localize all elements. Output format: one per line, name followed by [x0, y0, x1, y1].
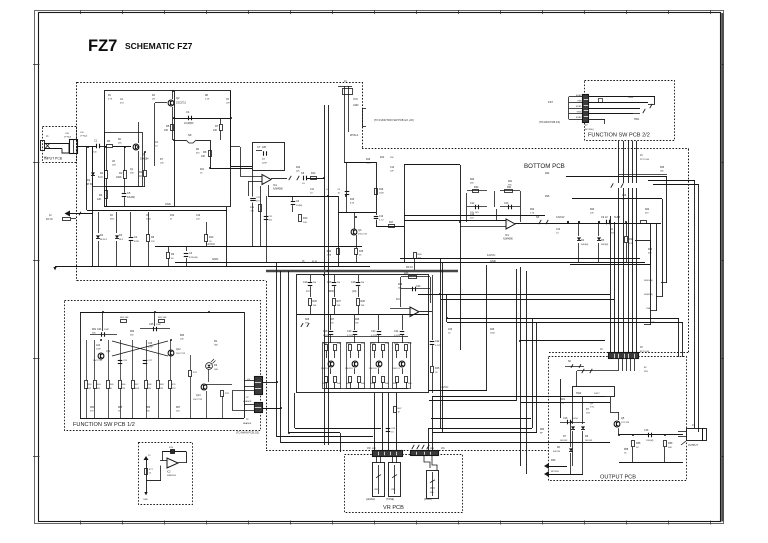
svg-text:(HI): (HI): [352, 289, 356, 293]
svg-text:R12: R12: [311, 172, 316, 175]
svg-text:GND: GND: [577, 112, 582, 114]
svg-text:4.7K: 4.7K: [108, 98, 113, 100]
svg-text:R6: R6: [203, 150, 207, 154]
svg-text:LED: LED: [214, 369, 219, 371]
svg-text:SUB1: SUB1: [576, 106, 582, 108]
svg-text:FZ7: FZ7: [88, 37, 117, 55]
svg-text:12VCC: 12VCC: [440, 385, 448, 389]
svg-text:R21: R21: [507, 186, 512, 189]
svg-text:10U: 10U: [196, 218, 200, 220]
svg-text:R46: R46: [490, 329, 495, 331]
svg-text:(TONE): (TONE): [386, 498, 394, 501]
svg-text:IC2: IC2: [396, 298, 400, 301]
svg-text:51 K: 51 K: [98, 176, 103, 179]
svg-text:IC1: IC1: [505, 234, 510, 237]
svg-text:1M: 1M: [152, 98, 155, 100]
svg-text:0.1UV: 0.1UV: [323, 335, 330, 337]
svg-text:HEADER: HEADER: [243, 400, 252, 403]
svg-text:C9 1U: C9 1U: [601, 216, 608, 219]
svg-text:56K(M): 56K(M): [581, 244, 588, 246]
svg-text:R64: R64: [90, 407, 95, 409]
svg-text:R45: R45: [435, 367, 440, 370]
svg-text:1P RLA.: 1P RLA.: [80, 135, 88, 138]
svg-text:+: +: [168, 464, 170, 468]
svg-text:R60: R60: [540, 429, 545, 431]
svg-text:10K: 10K: [303, 222, 307, 224]
svg-text:R21: R21: [508, 181, 513, 183]
svg-text:BP7605: BP7605: [551, 471, 560, 473]
svg-text:10K: 10K: [160, 162, 164, 164]
svg-text:R20: R20: [474, 186, 479, 189]
svg-text:2M: 2M: [361, 282, 364, 284]
svg-text:56K: 56K: [398, 287, 402, 289]
svg-text:C21: C21: [394, 330, 399, 333]
svg-text:22K: 22K: [296, 170, 300, 172]
svg-text:+: +: [411, 313, 413, 317]
svg-text:R2: R2: [119, 171, 123, 175]
svg-text:1U/50: 1U/50: [572, 418, 579, 420]
svg-text:C4: C4: [186, 110, 190, 114]
svg-text:C15: C15: [563, 417, 568, 420]
svg-text:D1: D1: [87, 178, 91, 182]
svg-text:R63: R63: [180, 335, 185, 337]
svg-text:56K: 56K: [118, 142, 122, 144]
svg-text:R61: R61: [92, 329, 97, 331]
svg-text:10K: 10K: [180, 338, 184, 340]
svg-text:INPUT PCB: INPUT PCB: [44, 157, 63, 161]
svg-text:R4: R4: [99, 193, 103, 197]
svg-text:47U: 47U: [256, 200, 260, 202]
svg-text:2.2K: 2.2K: [205, 98, 210, 100]
svg-text:RP-10: RP-10: [406, 266, 413, 269]
svg-text:R22: R22: [629, 238, 634, 241]
svg-text:1U(M): 1U(M): [296, 205, 302, 207]
svg-text:8P PLUG: 8P PLUG: [640, 351, 649, 353]
svg-text:R58: R58: [636, 442, 641, 445]
svg-text:R65: R65: [118, 407, 123, 409]
svg-text:0.1UV: 0.1UV: [394, 335, 401, 337]
svg-text:SW1: SW1: [628, 96, 634, 99]
svg-text:SF: SF: [536, 215, 540, 219]
svg-text:10U(M): 10U(M): [646, 440, 654, 442]
svg-text:BP IN: BP IN: [86, 183, 92, 186]
svg-text:VR3: VR3: [430, 487, 435, 490]
svg-text:2SC2712: 2SC2712: [176, 353, 186, 355]
svg-text:G: G: [326, 189, 328, 191]
svg-text:15K: 15K: [390, 157, 394, 159]
svg-text:WA: WA: [430, 491, 434, 494]
svg-text:8P IN: 8P IN: [312, 261, 318, 263]
svg-text:100K: 100K: [490, 332, 495, 334]
svg-text:2SC2712: 2SC2712: [358, 234, 368, 236]
svg-text:FUNCTION SW PCB 1/2: FUNCTION SW PCB 1/2: [73, 422, 135, 428]
svg-text:R15: R15: [359, 251, 364, 253]
svg-text:R25: R25: [660, 167, 665, 169]
svg-text:100P: 100P: [96, 348, 101, 350]
svg-text:SF: SF: [188, 133, 192, 137]
svg-text:100P: 100P: [104, 329, 110, 331]
svg-text:R14: R14: [380, 157, 385, 159]
svg-text:VSB: VSB: [577, 100, 582, 102]
svg-text:R62: R62: [130, 331, 135, 333]
svg-text:-: -: [263, 175, 264, 179]
svg-text:C12: C12: [390, 167, 395, 169]
svg-text:DC IN: DC IN: [46, 218, 53, 221]
svg-text:12V01V: 12V01V: [556, 216, 565, 219]
svg-text:R27: R27: [337, 300, 342, 303]
svg-text:C12: C12: [470, 202, 475, 205]
svg-text:R59: R59: [668, 442, 673, 445]
svg-text:2M: 2M: [313, 282, 316, 284]
svg-text:C24: C24: [96, 345, 101, 347]
svg-text:NJM2904: NJM2904: [167, 475, 177, 477]
svg-text:+: +: [263, 181, 265, 185]
svg-text:GND: GND: [490, 259, 496, 263]
svg-text:RLZ6.2: RLZ6.2: [100, 239, 108, 241]
svg-text:10K: 10K: [201, 155, 206, 158]
svg-text:R61 56K: R61 56K: [120, 317, 129, 319]
svg-text:47K: 47K: [90, 410, 94, 412]
svg-text:2P RLA: 2P RLA: [64, 136, 72, 139]
svg-text:C20: C20: [371, 330, 376, 333]
svg-text:C25: C25: [149, 323, 154, 326]
svg-text:R60: R60: [551, 459, 556, 462]
svg-text:NJM4580: NJM4580: [503, 239, 514, 241]
svg-text:R20: R20: [470, 179, 475, 181]
svg-text:DTC124: DTC124: [621, 422, 630, 424]
svg-text:R22: R22: [530, 209, 535, 211]
svg-text:R16: R16: [366, 159, 371, 161]
svg-text:C14: C14: [303, 281, 308, 284]
svg-text:56K: 56K: [146, 410, 150, 412]
svg-text:C10: C10: [379, 216, 384, 218]
svg-text:(FUZZ): (FUZZ): [424, 498, 432, 501]
svg-text:R16: R16: [379, 189, 384, 191]
svg-text:1U(M)50: 1U(M)50: [184, 122, 194, 125]
svg-text:-: -: [411, 307, 412, 311]
svg-text:2P PLUG: 2P PLUG: [640, 159, 649, 161]
svg-text:150K: 150K: [379, 192, 384, 194]
svg-text:VSB: VSB: [646, 308, 651, 310]
svg-text:2M: 2M: [337, 282, 340, 284]
svg-text:SUB2(B): SUB2(B): [644, 294, 653, 296]
svg-text:56K: 56K: [470, 182, 474, 184]
svg-text:-: -: [168, 458, 169, 462]
svg-text:C14: C14: [556, 229, 561, 231]
svg-text:DTC: DTC: [590, 406, 595, 408]
svg-text:C13: C13: [470, 214, 475, 216]
svg-text:HEADER: HEADER: [243, 422, 252, 425]
svg-text:100K: 100K: [116, 176, 122, 179]
svg-text:PIN: PIN: [644, 371, 648, 373]
svg-text:100U: 100U: [146, 218, 151, 220]
svg-text:R30: R30: [648, 249, 653, 251]
svg-text:ISS133: ISS133: [553, 451, 561, 453]
svg-text:C16: C16: [622, 195, 627, 197]
svg-text:C22: C22: [435, 340, 440, 343]
svg-text:56K(M): 56K(M): [601, 244, 608, 246]
svg-text:SF: SF: [568, 360, 572, 363]
svg-text:10K: 10K: [213, 129, 218, 132]
svg-text:R58: R58: [624, 449, 629, 451]
svg-text:GND: GND: [165, 202, 171, 206]
svg-text:LO: LO: [306, 289, 309, 293]
svg-text:LED: LED: [214, 344, 219, 346]
svg-text:R5: R5: [166, 124, 170, 128]
svg-text:15K: 15K: [361, 305, 365, 307]
svg-text:2SC2712: 2SC2712: [176, 102, 187, 105]
svg-text:100K: 100K: [366, 162, 371, 164]
svg-text:2SK: 2SK: [130, 172, 135, 174]
svg-text:10P: 10P: [390, 170, 394, 172]
svg-text:NJM4580: NJM4580: [273, 189, 284, 191]
svg-text:22K: 22K: [176, 410, 180, 412]
svg-text:56K: 56K: [130, 334, 134, 336]
svg-text:100P: 100P: [156, 324, 162, 326]
svg-text:8.2K: 8.2K: [350, 202, 355, 204]
svg-text:SCHEMATIC FZ7: SCHEMATIC FZ7: [125, 41, 193, 51]
svg-text:R12: R12: [170, 215, 175, 217]
svg-text:220P: 220P: [262, 162, 267, 164]
svg-text:R24: R24: [545, 172, 550, 175]
svg-text:1U: 1U: [302, 183, 305, 185]
svg-text:R13: R13: [303, 217, 308, 220]
svg-text:1K: 1K: [139, 175, 142, 178]
svg-text:R28: R28: [355, 319, 360, 321]
svg-text:4.7K: 4.7K: [172, 388, 177, 390]
svg-text:R24: R24: [645, 209, 650, 211]
svg-text:15K: 15K: [337, 305, 341, 307]
svg-text:12K: 12K: [97, 198, 102, 201]
svg-text:OUTPUT: OUTPUT: [688, 444, 698, 447]
svg-text:ISS133: ISS133: [560, 440, 568, 442]
svg-text:R27: R27: [330, 319, 335, 321]
svg-text:R3: R3: [139, 170, 143, 174]
svg-text:(TO FUNCTION SW PCB 1/2, 2/2): (TO FUNCTION SW PCB 1/2, 2/2): [374, 118, 414, 122]
svg-text:ISS133: ISS133: [585, 440, 593, 442]
svg-text:1SS: 1SS: [586, 412, 591, 414]
svg-text:C5: C5: [127, 191, 131, 195]
svg-text:22N: 22N: [112, 164, 116, 166]
svg-text:(MID): (MID): [328, 289, 335, 293]
svg-text:12VCC: 12VCC: [487, 253, 495, 257]
svg-text:Q12: Q12: [176, 348, 181, 351]
svg-text:Q13: Q13: [196, 394, 201, 397]
svg-text:R7: R7: [215, 124, 219, 128]
svg-text:VCC: VCC: [353, 98, 358, 101]
svg-text:SUB2: SUB2: [576, 117, 582, 119]
svg-text:RLZ: RLZ: [119, 239, 124, 241]
svg-text:(TO MAIN PCB 2/2): (TO MAIN PCB 2/2): [539, 121, 560, 124]
svg-text:10P: 10P: [226, 102, 230, 104]
svg-text:(LEVEL): (LEVEL): [366, 498, 375, 501]
svg-text:4.7U: 4.7U: [379, 219, 384, 221]
svg-text:GND: GND: [212, 257, 218, 261]
svg-text:C16: C16: [351, 281, 356, 284]
svg-text:R62 56K: R62 56K: [158, 317, 167, 319]
svg-text:C15: C15: [327, 281, 332, 284]
svg-text:R14: R14: [296, 167, 301, 169]
svg-text:15K: 15K: [305, 322, 309, 324]
svg-text:10K: 10K: [164, 129, 169, 132]
svg-text:FZ7: FZ7: [548, 100, 553, 104]
svg-text:0.1UV: 0.1UV: [371, 335, 378, 337]
svg-text:2SC2712: 2SC2712: [193, 399, 203, 401]
svg-text:R10: R10: [209, 236, 214, 239]
svg-text:470U(M): 470U(M): [189, 257, 198, 259]
svg-text:IC1: IC1: [273, 184, 278, 187]
svg-text:47U: 47U: [120, 102, 124, 104]
svg-text:SW2: SW2: [560, 399, 566, 401]
svg-text:C25: C25: [148, 343, 153, 345]
svg-text:22U: 22U: [470, 217, 474, 219]
svg-text:10K: 10K: [590, 212, 594, 214]
svg-text:SW1: SW1: [634, 118, 640, 121]
svg-text:R26: R26: [313, 300, 318, 303]
svg-text:R26: R26: [305, 319, 310, 321]
svg-text:0.1UV: 0.1UV: [347, 335, 354, 337]
svg-text:+: +: [507, 225, 509, 229]
svg-text:SUB3: SUB3: [614, 216, 621, 219]
svg-text:56K: 56K: [508, 184, 512, 186]
svg-text:R19: R19: [327, 251, 332, 253]
svg-text:4.7K: 4.7K: [530, 212, 535, 214]
svg-text:C19: C19: [347, 330, 352, 333]
svg-text:15K: 15K: [355, 322, 359, 324]
svg-text:(TO MAIN PCB 2/2): (TO MAIN PCB 2/2): [236, 431, 259, 435]
svg-text:VR PCB: VR PCB: [383, 505, 404, 511]
svg-text:R25: R25: [545, 195, 550, 198]
svg-text:C10: C10: [196, 215, 201, 217]
svg-text:BOTTOM PCB: BOTTOM PCB: [524, 163, 565, 170]
svg-text:C16: C16: [644, 429, 649, 432]
svg-text:SUB1(B): SUB1(B): [644, 280, 653, 282]
svg-text:15K: 15K: [330, 322, 334, 324]
svg-text:C23: C23: [416, 285, 421, 288]
svg-text:10U: 10U: [269, 219, 273, 221]
svg-text:470U: 470U: [134, 241, 140, 243]
svg-text:SUB3: SUB3: [576, 95, 582, 97]
svg-text:56K: 56K: [660, 170, 664, 172]
svg-text:MTZ: MTZ: [110, 218, 115, 220]
svg-text:15K: 15K: [313, 305, 317, 307]
svg-text:GND: GND: [353, 104, 359, 107]
svg-text:DS2Y: DS2Y: [594, 393, 600, 395]
svg-text:C24: C24: [97, 328, 102, 331]
svg-text:100P: 100P: [148, 346, 153, 348]
svg-text:C18: C18: [323, 330, 328, 333]
svg-text:56K: 56K: [668, 447, 672, 449]
svg-text:R46: R46: [404, 272, 409, 275]
svg-text:2P RLA: 2P RLA: [350, 134, 359, 137]
svg-text:Q2: Q2: [176, 96, 180, 100]
svg-text:C7: C7: [257, 145, 261, 149]
svg-text:R15: R15: [350, 199, 355, 201]
svg-text:R28: R28: [361, 300, 366, 303]
svg-text:OUTPUT PCB: OUTPUT PCB: [600, 475, 636, 481]
svg-text:FUNCTION SW PCB 2/2: FUNCTION SW PCB 2/2: [588, 133, 650, 139]
svg-text:R17: R17: [389, 222, 394, 224]
svg-text:2SK121: 2SK121: [392, 368, 401, 370]
svg-text:-: -: [507, 219, 508, 223]
svg-text:2 PA: 2 PA: [327, 253, 332, 256]
svg-text:C13: C13: [504, 202, 509, 205]
svg-text:R67: R67: [176, 407, 181, 409]
svg-text:10U(M): 10U(M): [127, 196, 135, 199]
svg-text:1SS: 1SS: [610, 232, 615, 234]
svg-text:8P 28SQ: 8P 28SQ: [585, 129, 594, 131]
svg-text:R66: R66: [146, 407, 151, 409]
svg-text:56K: 56K: [92, 332, 96, 334]
svg-text:22P: 22P: [262, 146, 267, 149]
svg-text:100K: 100K: [135, 388, 140, 390]
svg-text:C23: C23: [448, 329, 453, 331]
svg-text:R1: R1: [100, 171, 104, 175]
svg-text:R29: R29: [398, 284, 403, 286]
svg-text:R23: R23: [590, 209, 595, 211]
svg-text:GND: GND: [143, 499, 148, 501]
svg-text:SW2: SW2: [576, 392, 582, 395]
